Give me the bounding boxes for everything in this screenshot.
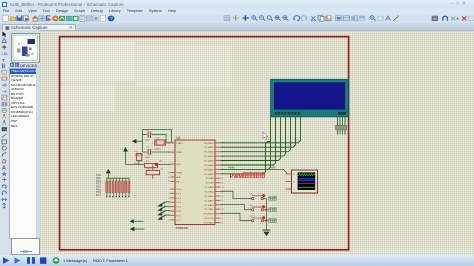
ground symbol buttons [262, 230, 270, 236]
svg-text:L: L [16, 64, 18, 68]
svg-text:XTAL1: XTAL1 [176, 142, 183, 145]
svg-text:T: T [2, 58, 5, 64]
svg-text:C1: C1 [146, 130, 150, 132]
svg-text:P0.5/AD5: P0.5/AD5 [204, 164, 214, 167]
tab bar [0, 23, 474, 30]
svg-text:P3.1/TXD: P3.1/TXD [204, 218, 214, 220]
junction reset node [155, 163, 158, 166]
wire bus LCD data staircase [220, 117, 300, 174]
svg-text:R1: R1 [146, 161, 150, 163]
capacitor C1 [143, 131, 167, 137]
svg-text:C2: C2 [146, 147, 150, 149]
oscilloscope pins [286, 173, 295, 191]
schematic sheet border [60, 37, 349, 250]
junction rail K2 [265, 209, 267, 211]
svg-text:36: 36 [221, 156, 223, 158]
capacitor C2 [143, 149, 171, 155]
svg-text:PSEN: PSEN [176, 173, 182, 175]
svg-text:P2.0/A8: P2.0/A8 [206, 177, 215, 180]
svg-text:1k: 1k [161, 169, 164, 171]
svg-text:P2.2/A10: P2.2/A10 [205, 186, 215, 189]
main toolbar [0, 14, 474, 24]
power terminal VCC reset [123, 147, 128, 165]
svg-text:12: 12 [221, 222, 223, 224]
label pause button [269, 208, 277, 212]
wire caps common leg [142, 135, 144, 153]
svg-text:XTAL2: XTAL2 [176, 151, 183, 154]
net label PWM left [229, 166, 235, 169]
svg-text:P2.1/A9: P2.1/A9 [206, 182, 215, 185]
schematic canvas [40, 30, 474, 256]
svg-text:37: 37 [221, 152, 223, 154]
svg-text:3: 3 [169, 198, 170, 200]
ground terminal for caps [132, 139, 143, 144]
wire respack top rail [106, 177, 130, 179]
svg-text:5: 5 [169, 206, 170, 208]
svg-text:U1: U1 [177, 136, 181, 140]
label start button [269, 197, 277, 201]
svg-text:P3.0/RXD: P3.0/RXD [204, 214, 214, 216]
U1 left pins [170, 143, 175, 220]
U1 right pin names [204, 142, 215, 225]
svg-text:P3.2/INT0: P3.2/INT0 [204, 223, 215, 225]
label clear button [269, 219, 277, 223]
svg-text:PWM: PWM [230, 174, 244, 180]
capacitor C3 electrolytic [135, 153, 143, 160]
svg-text:10: 10 [221, 214, 223, 216]
svg-text:P0.1/AD1: P0.1/AD1 [204, 146, 214, 149]
svg-text:25: 25 [221, 196, 223, 198]
U1 right pin numbers [221, 143, 223, 225]
svg-text:26: 26 [221, 200, 223, 202]
push button K2 [249, 205, 267, 211]
svg-text:P1.7: P1.7 [176, 220, 181, 222]
left object panel [9, 30, 40, 255]
RP1 net labels column [96, 173, 101, 197]
svg-text:34: 34 [221, 165, 223, 167]
svg-text:P0.2/AD2: P0.2/AD2 [204, 151, 214, 154]
svg-text:6: 6 [169, 211, 170, 213]
svg-text:11: 11 [221, 218, 223, 220]
svg-text:A: A [2, 165, 6, 171]
svg-text:23: 23 [221, 187, 223, 189]
LCD display LCD1 frame [271, 79, 349, 117]
svg-text:AT89C52: AT89C52 [176, 226, 189, 230]
title bar [0, 0, 474, 8]
svg-text:K3: K3 [250, 216, 253, 218]
svg-text:P2.4/A12: P2.4/A12 [205, 195, 215, 198]
C1 labels [145, 130, 151, 142]
U1 value label AT89C52 [176, 226, 189, 230]
oscilloscope screen with traces [298, 172, 316, 190]
svg-text:30pF: 30pF [145, 157, 151, 159]
R1 labels [146, 161, 163, 163]
input terminals on U1 left pins [157, 202, 170, 220]
wire button ground rail [266, 199, 268, 231]
svg-text:P0.4/AD4: P0.4/AD4 [204, 160, 214, 163]
oscilloscope body [292, 170, 318, 193]
svg-text:P1.3: P1.3 [176, 202, 181, 204]
junction rail K3 [265, 220, 267, 222]
svg-text:P1.5: P1.5 [176, 211, 181, 213]
power terminal VCC respack [106, 169, 111, 178]
svg-text:P0.6/AD6: P0.6/AD6 [204, 168, 214, 171]
svg-text:P2.6/A14: P2.6/A14 [205, 204, 215, 207]
svg-text:28: 28 [221, 209, 223, 211]
C2 labels [145, 147, 151, 159]
microcontroller U1 AT89C52 body [175, 140, 215, 225]
lighter grid patches [61, 41, 231, 111]
U1 reference label [177, 136, 181, 140]
svg-text:10k: 10k [159, 161, 163, 163]
wire U1 to button K2 [220, 205, 249, 210]
svg-text:22: 22 [221, 183, 223, 185]
svg-text:8: 8 [169, 220, 170, 222]
push button K3 [249, 216, 267, 222]
svg-text:P1.2: P1.2 [176, 198, 181, 200]
wire reset net to RST pin [126, 164, 171, 166]
svg-text:P0.0/AD0: P0.0/AD0 [204, 142, 214, 145]
svg-text:2: 2 [169, 193, 170, 195]
R2 labels [148, 169, 164, 171]
ground terminal lower left B [130, 227, 145, 232]
resistor pack RP1 eight resistors [106, 178, 130, 197]
wire C3 to reset node [138, 161, 140, 165]
wire PWM output [220, 169, 291, 174]
text label PWM output display [230, 173, 265, 180]
svg-text:39: 39 [221, 143, 223, 145]
mouse cursor [263, 132, 268, 139]
U1 left pin numbers [168, 143, 170, 222]
svg-text:P2.7/A15: P2.7/A15 [205, 208, 215, 211]
svg-text:P0.7/AD7: P0.7/AD7 [204, 173, 214, 176]
svg-text:1: 1 [169, 189, 170, 191]
svg-text:P0.3/AD3: P0.3/AD3 [204, 155, 214, 158]
svg-text:P2.3/A11: P2.3/A11 [205, 191, 215, 194]
svg-text:P1.4: P1.4 [176, 207, 181, 209]
svg-text:P1.1: P1.1 [176, 193, 181, 195]
wire U1 to button K1 [220, 191, 249, 198]
svg-text:27: 27 [221, 205, 223, 207]
svg-text:32: 32 [221, 174, 223, 176]
svg-text:30pF: 30pF [145, 140, 151, 142]
svg-text:PWM: PWM [229, 166, 235, 169]
menu bar [0, 8, 474, 14]
wire crystal top rail [143, 129, 172, 142]
svg-text:K2: K2 [250, 205, 253, 207]
svg-text:21: 21 [221, 178, 223, 180]
svg-text:4: 4 [169, 202, 170, 204]
status bar [0, 255, 474, 266]
LCD1 pin name row [275, 112, 347, 115]
svg-text:31: 31 [168, 181, 170, 183]
svg-text:38: 38 [221, 147, 223, 149]
svg-text:K1: K1 [250, 194, 253, 196]
svg-text:LBL: LBL [2, 51, 9, 56]
svg-text:29: 29 [168, 172, 170, 174]
svg-text:PWM: PWM [270, 166, 276, 169]
resistor R2 [146, 170, 159, 174]
wire R2 lower leg [152, 175, 154, 179]
C3 labels [134, 151, 140, 165]
svg-text:ALE: ALE [176, 176, 181, 179]
net label PWM right [270, 166, 276, 169]
wire reset to R2 [152, 165, 154, 171]
svg-text:24: 24 [221, 191, 223, 193]
svg-text:+: + [456, 17, 459, 23]
svg-text:35: 35 [221, 160, 223, 162]
X1 label [154, 138, 161, 150]
U1 right pins [215, 143, 220, 223]
svg-text:P2.5/A13: P2.5/A13 [205, 199, 215, 202]
U1 left pin names [176, 142, 183, 222]
svg-text:P1.0: P1.0 [176, 189, 181, 191]
svg-text:C3: C3 [135, 151, 139, 153]
wire C1 to XTAL1 [166, 135, 170, 143]
svg-text:P17: P17 [96, 193, 101, 197]
wire U1 to button K3 [220, 213, 249, 220]
svg-text:RST: RST [176, 164, 181, 166]
svg-text:7: 7 [169, 215, 170, 217]
push button K1 [249, 194, 267, 200]
crystal X1 [155, 139, 166, 146]
svg-text:P1.6: P1.6 [176, 215, 181, 217]
left mode-icon strip [0, 30, 9, 255]
LCD1 right pins with terminating resistor block [336, 117, 347, 135]
LCD1 screen [274, 83, 345, 110]
svg-text:30: 30 [168, 177, 170, 179]
svg-text:?: ? [110, 17, 113, 23]
ground terminal lower left A [130, 219, 144, 223]
svg-text:12MHz: 12MHz [154, 148, 161, 150]
resistor R1 [145, 163, 158, 167]
